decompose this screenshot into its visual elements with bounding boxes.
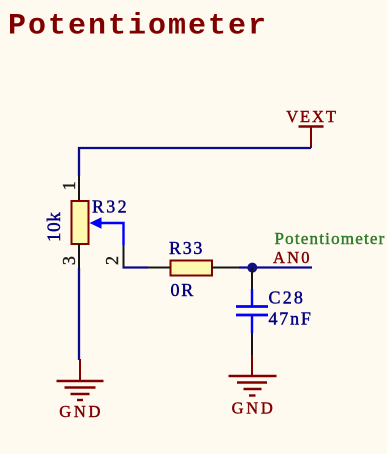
ground GND left — [57, 359, 104, 421]
svg-text:47nF: 47nF — [269, 309, 313, 329]
svg-text:VEXT: VEXT — [286, 107, 338, 126]
svg-text:10k: 10k — [44, 212, 65, 242]
svg-text:R32: R32 — [92, 197, 129, 217]
capacitor C28 symbol — [236, 289, 268, 333]
potentiometer R32 body — [72, 201, 89, 244]
capacitor C28 pin bottom — [251, 333, 253, 355]
potentiometer R32 pin 3 — [78, 244, 80, 269]
power port VEXT — [286, 107, 338, 148]
svg-text:2: 2 — [102, 256, 122, 265]
junction node AN0 — [247, 263, 257, 273]
potentiometer R32 pin 2 — [123, 245, 125, 268]
wire wiper to R33 — [123, 266, 149, 268]
svg-text:AN0: AN0 — [273, 248, 312, 267]
svg-text:0R: 0R — [171, 280, 196, 300]
resistor R33 body — [171, 261, 213, 276]
svg-text:1: 1 — [59, 181, 79, 190]
wire left vertical upper — [78, 147, 80, 176]
resistor R33 pin left — [147, 267, 170, 269]
svg-text:R33: R33 — [169, 238, 204, 258]
svg-text:GND: GND — [59, 402, 103, 421]
resistor R33 pin right — [212, 267, 239, 269]
svg-text:GND: GND — [232, 399, 276, 418]
wire left vertical lower to GND — [78, 268, 80, 360]
svg-text:Potentiometer: Potentiometer — [8, 10, 268, 44]
wire top horizontal VEXT to pot — [78, 147, 311, 149]
ground GND right — [229, 355, 277, 418]
potentiometer R32 pin 1 — [78, 176, 80, 201]
svg-text:Potentiometer: Potentiometer — [275, 229, 386, 248]
svg-text:C28: C28 — [269, 288, 306, 308]
wire R33 to AN0 — [239, 266, 312, 268]
svg-text:3: 3 — [59, 256, 79, 265]
potentiometer R32 wiper arrow — [90, 217, 124, 245]
capacitor C28 pin top — [251, 268, 253, 290]
